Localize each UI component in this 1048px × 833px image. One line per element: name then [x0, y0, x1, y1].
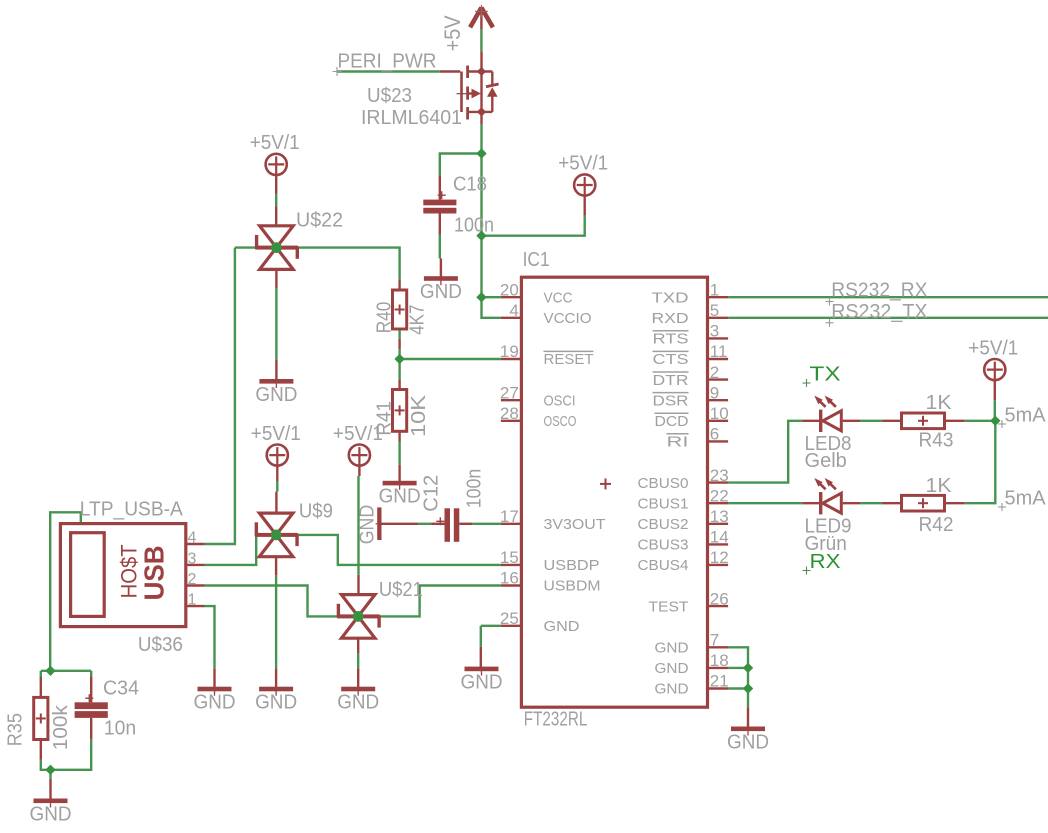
svg-text:+5V/1: +5V/1: [968, 337, 1018, 359]
svg-text:4: 4: [188, 530, 197, 547]
svg-text:4: 4: [509, 301, 518, 320]
svg-text:CBUS4: CBUS4: [638, 557, 689, 574]
svg-text:10n: 10n: [104, 718, 136, 740]
svg-text:R40: R40: [373, 302, 395, 334]
svg-text:GND: GND: [420, 281, 462, 303]
svg-text:U$9: U$9: [299, 500, 333, 522]
svg-text:DTR: DTR: [653, 372, 689, 389]
svg-text:U$23: U$23: [367, 85, 412, 107]
svg-text:RS232_TX: RS232_TX: [831, 301, 927, 323]
svg-text:TX: TX: [810, 364, 841, 386]
svg-text:RTS: RTS: [653, 331, 689, 348]
svg-text:18: 18: [710, 651, 729, 670]
svg-text:19: 19: [500, 342, 519, 361]
svg-text:LTP_USB-A: LTP_USB-A: [80, 498, 184, 520]
svg-text:CTS: CTS: [653, 351, 689, 368]
svg-text:4K7: 4K7: [407, 305, 429, 335]
svg-text:RI: RI: [667, 434, 689, 451]
svg-text:IRLML6401: IRLML6401: [361, 107, 462, 129]
svg-text:100k: 100k: [50, 704, 72, 750]
svg-text:OSCI: OSCI: [544, 392, 576, 409]
svg-text:C12: C12: [420, 475, 442, 512]
svg-text:12: 12: [710, 548, 729, 567]
svg-text:2: 2: [188, 571, 197, 588]
svg-text:GND: GND: [461, 671, 503, 693]
svg-text:C34: C34: [103, 678, 139, 700]
svg-text:USB: USB: [139, 545, 170, 600]
svg-text:10K: 10K: [408, 394, 430, 437]
svg-text:5mA: 5mA: [1005, 488, 1047, 510]
svg-text:GND: GND: [727, 731, 769, 753]
svg-text:11: 11: [710, 342, 728, 361]
svg-text:23: 23: [710, 466, 729, 485]
svg-text:GND: GND: [655, 681, 689, 698]
svg-text:U$36: U$36: [138, 634, 183, 656]
svg-text:1K: 1K: [926, 475, 953, 497]
svg-text:CBUS1: CBUS1: [638, 495, 689, 512]
svg-text:DSR: DSR: [653, 392, 689, 409]
svg-text:1: 1: [710, 280, 719, 299]
svg-text:1: 1: [188, 592, 197, 609]
svg-text:22: 22: [710, 486, 729, 505]
svg-text:R41: R41: [373, 401, 395, 436]
svg-text:GND: GND: [255, 384, 297, 406]
svg-text:25: 25: [500, 609, 519, 628]
svg-text:21: 21: [710, 672, 729, 691]
svg-text:20: 20: [500, 280, 519, 299]
svg-text:RS232_RX: RS232_RX: [831, 280, 927, 302]
svg-text:GND: GND: [357, 505, 379, 545]
svg-text:USBDM: USBDM: [544, 578, 601, 595]
svg-text:3: 3: [710, 322, 719, 341]
svg-text:GND: GND: [30, 803, 72, 825]
svg-text:USBDP: USBDP: [544, 557, 600, 574]
svg-text:R43: R43: [919, 430, 954, 452]
svg-text:GND: GND: [655, 660, 689, 677]
svg-text:+5V: +5V: [440, 15, 465, 51]
svg-text:CBUS3: CBUS3: [638, 537, 689, 554]
svg-text:GND: GND: [194, 692, 236, 714]
svg-text:13: 13: [710, 507, 729, 526]
svg-text:GND: GND: [379, 486, 421, 508]
svg-text:VCC: VCC: [544, 289, 573, 306]
svg-text:R35: R35: [5, 713, 27, 746]
svg-text:DCD: DCD: [655, 413, 689, 430]
svg-text:26: 26: [710, 589, 729, 608]
svg-text:TEST: TEST: [649, 598, 689, 615]
svg-text:2: 2: [710, 363, 719, 382]
svg-text:16: 16: [500, 569, 519, 588]
svg-text:RESET: RESET: [544, 351, 594, 368]
svg-text:15: 15: [500, 548, 519, 567]
svg-text:17: 17: [500, 507, 519, 526]
svg-text:C18: C18: [453, 174, 487, 196]
svg-text:GND: GND: [255, 692, 297, 714]
svg-text:+5V/1: +5V/1: [251, 423, 301, 445]
svg-text:GND: GND: [655, 640, 689, 657]
svg-text:3: 3: [188, 550, 197, 567]
svg-text:TXD: TXD: [652, 289, 689, 306]
svg-text:IC1: IC1: [523, 249, 550, 271]
svg-text:100n: 100n: [454, 215, 494, 237]
svg-text:+5V/1: +5V/1: [250, 132, 300, 154]
svg-text:CBUS2: CBUS2: [638, 516, 689, 533]
svg-text:U$21: U$21: [379, 579, 423, 601]
svg-text:9: 9: [710, 383, 719, 402]
svg-text:14: 14: [710, 528, 729, 547]
svg-text:5mA: 5mA: [1005, 405, 1047, 427]
svg-text:100n: 100n: [463, 469, 485, 509]
svg-text:28: 28: [500, 404, 519, 423]
svg-text:6: 6: [710, 425, 719, 444]
svg-text:Gelb: Gelb: [805, 450, 847, 472]
svg-text:3V3OUT: 3V3OUT: [544, 516, 606, 533]
svg-text:U$22: U$22: [296, 209, 343, 231]
svg-text:27: 27: [500, 383, 519, 402]
svg-text:GND: GND: [337, 692, 379, 714]
svg-text:GND: GND: [544, 618, 580, 635]
svg-text:R42: R42: [919, 514, 954, 536]
svg-text:FT232RL: FT232RL: [524, 708, 588, 730]
svg-text:RX: RX: [810, 551, 841, 573]
svg-text:+5V/1: +5V/1: [558, 153, 608, 175]
svg-text:CBUS0: CBUS0: [638, 475, 689, 492]
svg-text:1K: 1K: [926, 392, 953, 414]
svg-text:OSCO: OSCO: [544, 413, 577, 430]
svg-text:7: 7: [710, 631, 719, 650]
svg-text:PERI_PWR: PERI_PWR: [338, 51, 437, 73]
svg-text:5: 5: [710, 301, 719, 320]
svg-text:VCCIO: VCCIO: [544, 310, 592, 327]
svg-text:10: 10: [710, 404, 729, 423]
svg-text:RXD: RXD: [652, 310, 689, 327]
